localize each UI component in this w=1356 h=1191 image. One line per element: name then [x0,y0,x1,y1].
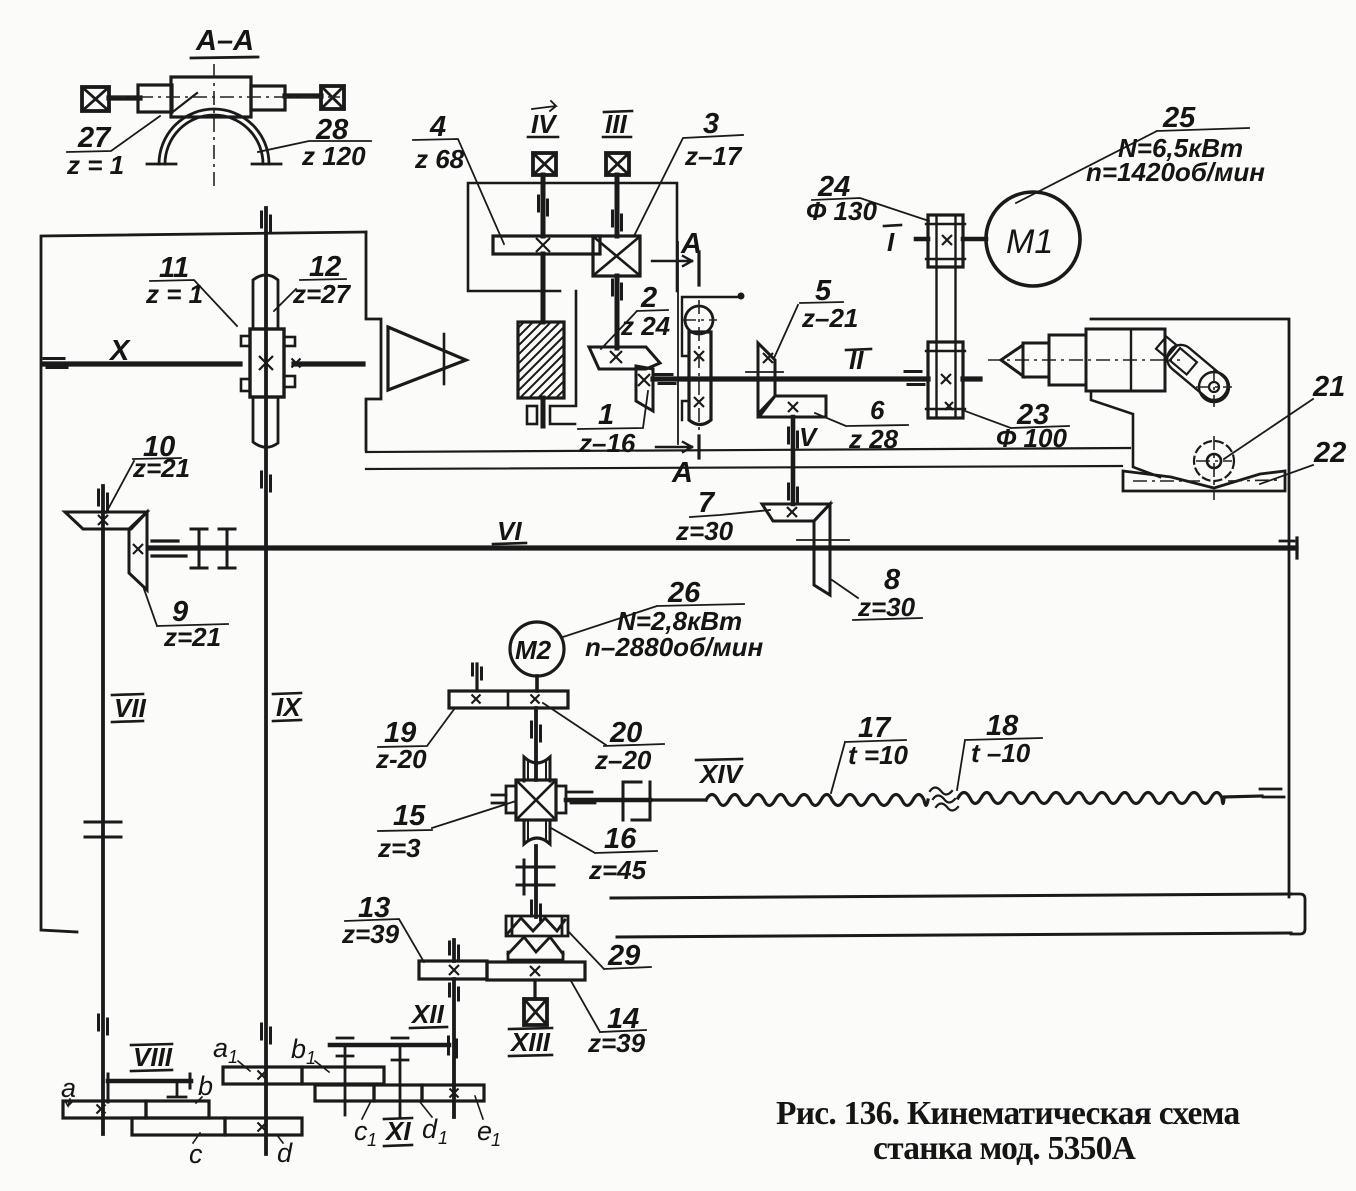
svg-text:z=30: z=30 [675,516,734,546]
svg-text:z 28: z 28 [848,424,899,454]
svg-text:e: e [477,1116,492,1146]
svg-text:4: 4 [429,111,446,143]
svg-text:z=39: z=39 [341,919,400,949]
svg-text:2: 2 [640,282,657,314]
svg-text:IX: IX [276,692,302,722]
svg-text:1: 1 [438,1128,448,1148]
svg-text:16: 16 [604,823,637,855]
svg-text:t –10: t –10 [971,738,1031,768]
svg-text:XI: XI [384,1116,411,1146]
svg-text:z=21: z=21 [163,622,221,652]
svg-text:d: d [422,1114,438,1144]
svg-text:b: b [198,1071,213,1101]
svg-text:IV: IV [531,109,558,139]
svg-text:z-20: z-20 [375,744,427,774]
svg-text:z 24: z 24 [620,311,671,341]
svg-text:c: c [189,1139,203,1169]
svg-text:z=21: z=21 [132,453,190,483]
svg-text:1: 1 [228,1047,238,1067]
svg-text:М2: М2 [515,635,552,665]
svg-text:III: III [605,109,627,139]
svg-text:V: V [799,422,819,452]
svg-text:z = 1: z = 1 [66,150,124,180]
svg-text:a: a [61,1073,76,1103]
svg-text:Рис. 136. Кинематическая схема: Рис. 136. Кинематическая схема [776,1095,1241,1132]
svg-text:z–16: z–16 [578,428,636,458]
svg-text:21: 21 [1312,371,1345,403]
svg-text:15: 15 [393,800,426,832]
svg-text:1: 1 [306,1048,316,1068]
svg-text:22: 22 [1313,437,1346,469]
svg-text:VI: VI [497,516,522,546]
svg-text:I: I [887,227,895,257]
svg-text:26: 26 [667,577,701,609]
svg-text:z=3: z=3 [377,833,421,863]
svg-text:1: 1 [367,1130,377,1150]
svg-text:А–А: А–А [195,25,254,57]
svg-text:z=30: z=30 [857,592,916,622]
svg-text:станка мод. 5350А: станка мод. 5350А [873,1130,1136,1167]
svg-text:b: b [291,1034,306,1064]
svg-text:c: c [354,1116,368,1146]
svg-text:Ф 130: Ф 130 [806,196,877,226]
svg-text:XIV: XIV [698,759,745,789]
svg-text:6: 6 [870,395,885,425]
svg-text:z = 1: z = 1 [145,279,203,309]
svg-text:VII: VII [114,693,147,723]
svg-text:М1: М1 [1006,223,1053,261]
svg-text:d: d [277,1138,293,1168]
svg-text:z–20: z–20 [594,745,652,775]
svg-text:z 68: z 68 [414,144,465,174]
svg-text:Ф 100: Ф 100 [996,423,1067,453]
svg-text:А: А [671,457,693,489]
svg-text:z=27: z=27 [292,279,352,309]
svg-text:a: a [213,1033,228,1063]
svg-text:1: 1 [598,399,614,431]
svg-text:3: 3 [703,108,719,140]
svg-text:1: 1 [491,1130,501,1150]
svg-text:n–2880об/мин: n–2880об/мин [585,632,764,662]
svg-text:XII: XII [410,999,445,1029]
svg-text:7: 7 [698,487,716,519]
svg-text:z–17: z–17 [684,141,743,171]
svg-text:XIII: XIII [509,1027,551,1057]
svg-text:z=45: z=45 [588,855,647,885]
svg-text:VIII: VIII [133,1042,173,1072]
svg-text:z–21: z–21 [801,303,858,333]
svg-text:z=39: z=39 [587,1028,646,1058]
svg-text:X: X [108,335,131,367]
svg-text:n=1420об/мин: n=1420об/мин [1086,157,1265,187]
svg-text:t =10: t =10 [848,740,909,770]
svg-text:z 120: z 120 [301,141,366,171]
